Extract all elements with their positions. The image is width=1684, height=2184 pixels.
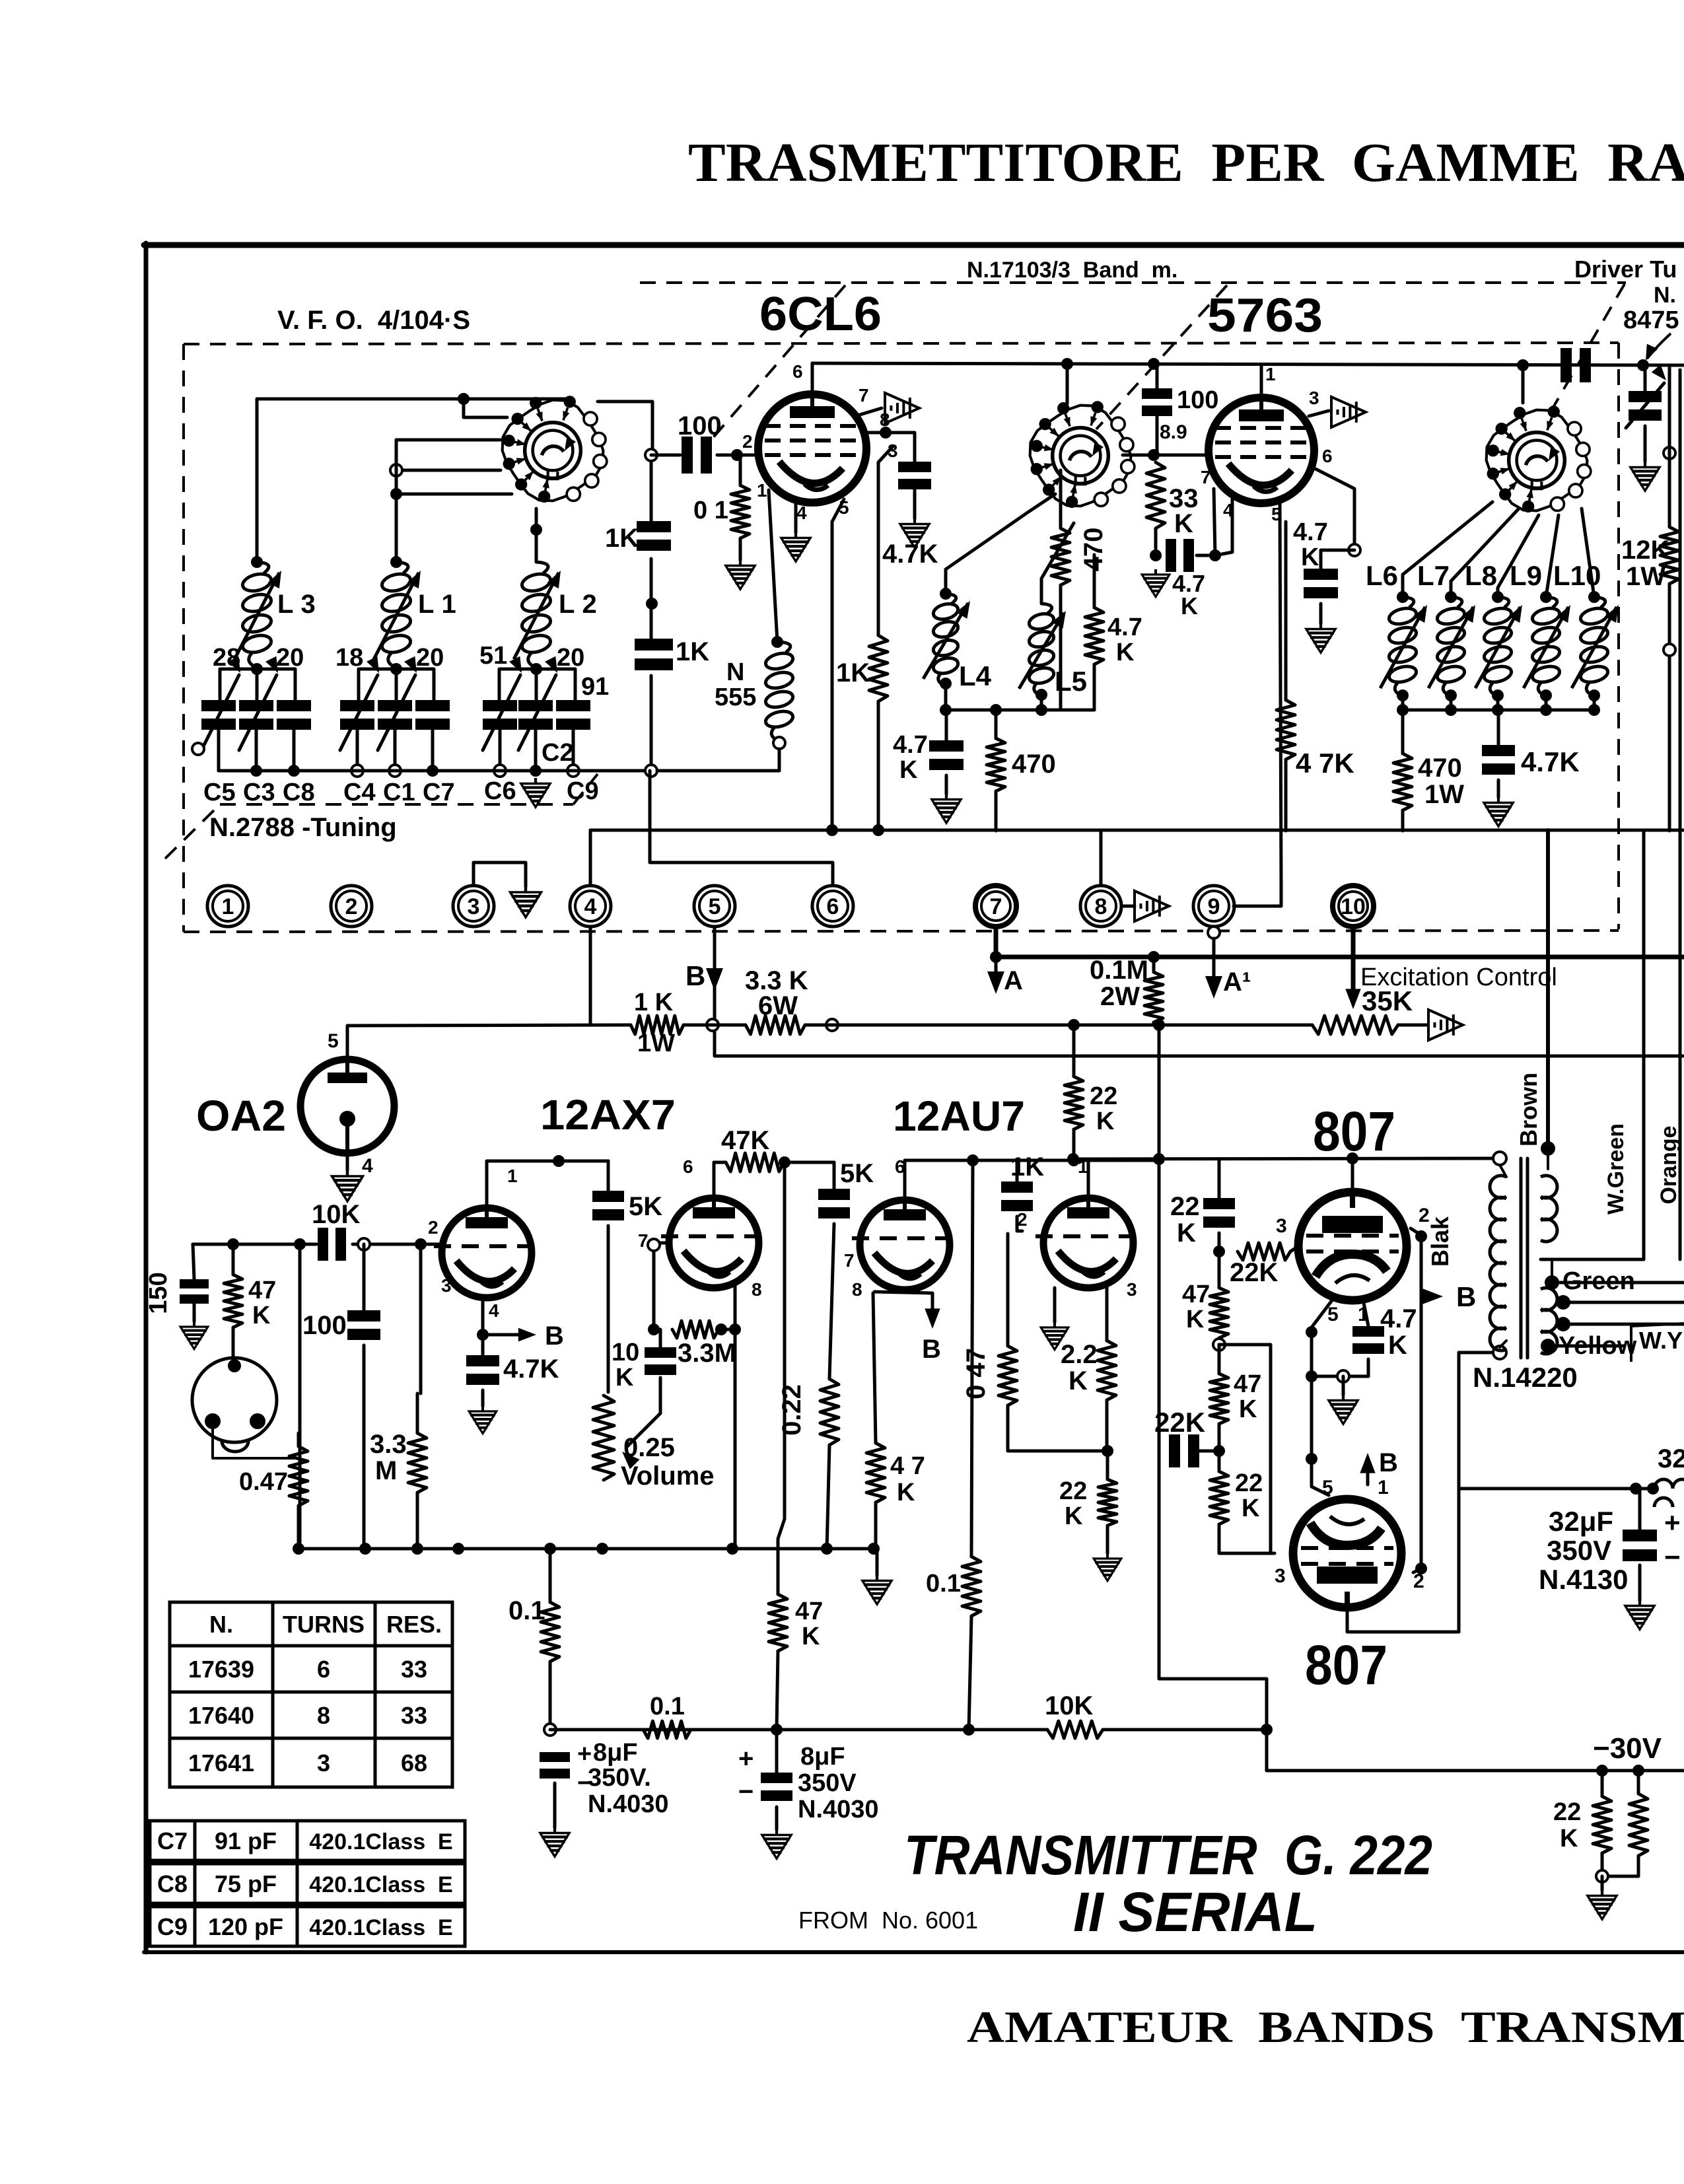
tube V7 807 upper xyxy=(1298,1192,1407,1300)
wire xyxy=(833,1162,836,1189)
transformer core xyxy=(1520,1158,1523,1358)
svg-text:5: 5 xyxy=(328,1030,339,1052)
wire xyxy=(1638,1489,1642,1530)
junction xyxy=(494,765,506,777)
wire yellow xyxy=(1556,1345,1625,1348)
capacitor coupling driver xyxy=(1561,348,1572,382)
junction xyxy=(731,449,743,461)
svg-text:K: K xyxy=(1065,1502,1083,1530)
resistor 47K input xyxy=(224,1275,242,1327)
junction xyxy=(250,765,262,777)
B arrow up 807b xyxy=(1366,1463,1370,1485)
wire C6C2C9 top box xyxy=(499,669,575,700)
wire top bus 12AU7 xyxy=(973,1159,1159,1162)
junction xyxy=(390,488,402,500)
wire xyxy=(1218,1160,1221,1198)
svg-text:8: 8 xyxy=(752,1279,762,1300)
svg-text:6: 6 xyxy=(317,1656,330,1683)
resistor 2.2K xyxy=(1098,1341,1116,1400)
wire xyxy=(995,957,998,972)
capacitor 1K 12AU7 xyxy=(1001,1181,1033,1193)
capacitor 150 input xyxy=(180,1279,209,1288)
junction xyxy=(1153,1019,1165,1031)
wire pin6 to grid cap xyxy=(1316,469,1354,546)
capacitor 4.7K cathode xyxy=(466,1355,499,1366)
capacitor 10K coupling xyxy=(318,1228,328,1261)
wire pin4 down xyxy=(1215,499,1232,555)
wire pin1 riser xyxy=(487,1161,608,1208)
junction xyxy=(389,765,401,777)
junction xyxy=(427,765,439,777)
junction xyxy=(1349,544,1360,556)
junction xyxy=(1347,1152,1358,1164)
terminal 9 xyxy=(1193,886,1234,927)
svg-text:0.47: 0.47 xyxy=(239,1468,288,1496)
wire xyxy=(1040,695,1043,710)
wire xyxy=(1258,1024,1312,1027)
junction xyxy=(1153,1153,1165,1165)
svg-text:32: 32 xyxy=(1658,1444,1684,1473)
resistor 1K plate xyxy=(869,635,888,701)
ground xyxy=(1631,462,1660,491)
svg-text:7: 7 xyxy=(859,385,869,405)
terminal tap2 xyxy=(1556,1317,1570,1331)
junction xyxy=(1337,1370,1349,1382)
terminal 2 xyxy=(331,886,372,927)
svg-text:8μF: 8μF xyxy=(800,1743,845,1771)
svg-text:10: 10 xyxy=(612,1339,639,1366)
svg-text:5: 5 xyxy=(1322,1477,1333,1498)
resistor 22K gnd xyxy=(1098,1479,1117,1526)
junction xyxy=(358,1238,370,1250)
svg-text:3: 3 xyxy=(1275,1565,1286,1587)
wire xyxy=(1668,367,1671,527)
transformer secondary winding xyxy=(1541,1176,1557,1354)
svg-text:L4: L4 xyxy=(959,660,992,691)
svg-text:2: 2 xyxy=(1413,1570,1424,1592)
svg-text:W.Y: W.Y xyxy=(1639,1327,1683,1354)
svg-text:C7: C7 xyxy=(423,779,455,806)
terminal 7 xyxy=(975,886,1016,927)
svg-text:+: + xyxy=(738,1744,754,1773)
svg-text:91 pF: 91 pF xyxy=(215,1827,277,1854)
junction xyxy=(940,678,952,689)
ground xyxy=(1588,1890,1617,1919)
tube V8 807 lower xyxy=(1293,1499,1401,1607)
junction xyxy=(771,636,783,648)
junction xyxy=(1540,704,1552,716)
junction xyxy=(1632,1765,1644,1777)
wire N555 bottom to VFO bus xyxy=(657,749,779,771)
svg-text:1W: 1W xyxy=(1424,780,1464,809)
wire xyxy=(1496,695,1500,710)
tube V5a 12AX7 xyxy=(434,1208,532,1298)
svg-text:0 47: 0 47 xyxy=(962,1348,991,1399)
junction xyxy=(390,663,402,675)
terminal tap1 xyxy=(1556,1295,1570,1310)
junction xyxy=(1492,689,1504,701)
wire L3 to caps xyxy=(256,668,259,700)
svg-text:AMATEUR BANDS TRANSM: AMATEUR BANDS TRANSM xyxy=(967,2002,1684,2052)
ground xyxy=(180,1321,208,1349)
wire tap2 xyxy=(1563,1323,1684,1326)
junction xyxy=(868,1543,880,1555)
wire cathode B xyxy=(483,1298,522,1335)
junction xyxy=(1068,1019,1080,1031)
junction xyxy=(646,598,658,610)
svg-text:K: K xyxy=(1177,1218,1196,1248)
svg-text:K: K xyxy=(899,756,918,784)
junction xyxy=(1647,1483,1659,1495)
ground xyxy=(540,1827,569,1856)
wire xyxy=(1644,365,1647,391)
junction xyxy=(251,556,263,568)
B arrow down 12AU7a xyxy=(874,1292,932,1314)
wire pin7 stub xyxy=(860,408,882,415)
resistor 33K xyxy=(1146,462,1165,528)
junction xyxy=(821,1543,833,1555)
capacitor 1K bypass upper xyxy=(637,521,671,532)
junction xyxy=(452,1543,464,1555)
dashed box right edge xyxy=(1617,343,1620,929)
svg-text:N.4030: N.4030 xyxy=(798,1796,879,1823)
rotary switch S3 driver band xyxy=(1487,405,1591,512)
wire pin8 column xyxy=(734,1329,737,1549)
wire xyxy=(1093,555,1096,608)
wire 47K column xyxy=(298,1244,302,1549)
svg-text:470: 470 xyxy=(1012,750,1056,779)
35K wiper arrow xyxy=(1345,989,1360,1009)
wire grid link xyxy=(1123,454,1209,457)
wire bus A mid xyxy=(996,955,1684,960)
capacitor 4.7K cathode 807 xyxy=(1352,1326,1384,1337)
junction xyxy=(390,556,402,568)
resistor 3.3K 6W xyxy=(746,1016,805,1034)
junction xyxy=(1035,704,1047,716)
wire VFO top bus xyxy=(257,399,569,562)
capacitor 1K bypass lower xyxy=(635,639,673,651)
svg-text:150: 150 xyxy=(145,1272,172,1314)
wire xyxy=(1218,1251,1221,1288)
junction xyxy=(1061,358,1073,370)
wire xyxy=(1008,1405,1107,1451)
capacitor screen bypass xyxy=(898,462,931,472)
wire xyxy=(1284,522,1288,700)
junction xyxy=(1306,1326,1317,1338)
svg-text:2: 2 xyxy=(428,1217,439,1238)
junction xyxy=(415,1238,427,1250)
terminal 5 xyxy=(694,886,735,927)
junction xyxy=(773,737,785,749)
junction xyxy=(1415,1563,1427,1574)
junction xyxy=(288,765,300,777)
svg-text:C4: C4 xyxy=(343,779,376,806)
wire xyxy=(1401,710,1405,754)
inductor L5 xyxy=(1028,604,1055,696)
svg-text:4.7: 4.7 xyxy=(1293,518,1328,546)
resistor 22K bias b xyxy=(1629,1794,1648,1856)
transformer primary terminal bottom xyxy=(1493,1346,1506,1359)
resistor 22K grid xyxy=(1238,1243,1290,1260)
terminal 8 xyxy=(1080,886,1121,927)
svg-text:2: 2 xyxy=(345,894,358,919)
wire pin3 plate down xyxy=(878,446,893,635)
svg-text:N.: N. xyxy=(209,1611,233,1638)
wire L1 column xyxy=(395,440,398,562)
transformer primary terminal top xyxy=(1493,1152,1506,1165)
wire xyxy=(721,1328,735,1331)
wire xyxy=(784,1161,834,1164)
svg-text:6: 6 xyxy=(827,894,839,919)
junction xyxy=(1492,591,1504,603)
svg-text:350V: 350V xyxy=(798,1769,857,1797)
junction xyxy=(1540,689,1552,701)
A1 arrow xyxy=(1212,938,1216,984)
svg-text:2: 2 xyxy=(742,431,753,452)
wire C4C1C7 bottoms xyxy=(356,730,359,771)
svg-text:17641: 17641 xyxy=(188,1749,254,1777)
svg-text:C9: C9 xyxy=(157,1913,188,1940)
svg-text:0 1: 0 1 xyxy=(693,497,728,524)
svg-text:6W: 6W xyxy=(758,991,798,1020)
svg-text:4.7K: 4.7K xyxy=(882,540,938,569)
B arrow right xyxy=(518,1328,536,1342)
dashed callout to 6CL6 band switch xyxy=(710,285,845,441)
svg-text:75 pF: 75 pF xyxy=(215,1870,277,1897)
resistor 0.1M 2W xyxy=(1144,972,1163,1022)
svg-text:4.7: 4.7 xyxy=(1380,1304,1417,1333)
svg-text:L 3: L 3 xyxy=(277,590,316,619)
wire C6C2C9 bottoms xyxy=(499,730,502,771)
svg-text:Brown: Brown xyxy=(1515,1073,1542,1146)
wire terminal10 down xyxy=(1351,927,1356,994)
wire x1755 column xyxy=(1159,1025,1267,1771)
wire screen to plate column xyxy=(1459,1353,1500,1632)
capacitor C1 trimmer xyxy=(378,700,412,711)
wire xyxy=(1450,695,1453,710)
svg-text:1: 1 xyxy=(1378,1477,1389,1498)
svg-text:TURNS: TURNS xyxy=(283,1611,365,1638)
svg-text:+: + xyxy=(1664,1507,1681,1538)
resistor 3.3M horiz xyxy=(672,1321,719,1338)
svg-text:C9: C9 xyxy=(567,777,599,805)
wire xyxy=(827,1445,829,1550)
inductor L8 xyxy=(1483,597,1513,696)
wire xyxy=(1342,1376,1345,1395)
svg-text:22: 22 xyxy=(1235,1469,1263,1497)
wire pin8 to screen cap xyxy=(864,433,915,462)
junction xyxy=(779,1156,790,1168)
wire PA coil bus xyxy=(1403,709,1594,712)
capacitor 100 bypass xyxy=(347,1310,380,1321)
svg-text:100: 100 xyxy=(302,1311,347,1340)
wire pin6 riser xyxy=(714,1162,726,1198)
svg-text:B: B xyxy=(1456,1281,1476,1312)
junction xyxy=(645,449,657,461)
svg-text:35K: 35K xyxy=(1362,985,1413,1016)
wire 12AU7a cathode xyxy=(873,1293,876,1443)
wire xyxy=(1321,550,1354,569)
wire xyxy=(1601,1876,1604,1890)
junction xyxy=(1630,1483,1642,1495)
wire tap1 xyxy=(1563,1301,1684,1304)
wire -30V bus xyxy=(1267,1769,1684,1773)
wire switch fan xyxy=(1403,502,1492,597)
svg-text:22: 22 xyxy=(1553,1798,1581,1826)
junction xyxy=(1209,549,1221,561)
wire C5C3C8 top box xyxy=(220,669,295,700)
junction xyxy=(1213,1246,1225,1257)
wire terminal4 riser xyxy=(589,830,592,886)
junction xyxy=(1415,1230,1427,1242)
wire terminal7 down xyxy=(994,927,999,957)
capacitor 32uF 350V xyxy=(1623,1530,1657,1541)
wire xyxy=(1197,1450,1219,1453)
ground xyxy=(1329,1395,1358,1424)
dashed box bottom edge xyxy=(184,931,1619,932)
keying arrow xyxy=(1331,397,1366,427)
ground xyxy=(1142,569,1170,597)
svg-text:4 7: 4 7 xyxy=(890,1452,925,1480)
svg-text:1K: 1K xyxy=(836,658,870,687)
wire pin1 cathode to N555 xyxy=(769,490,777,642)
wire xyxy=(1103,1728,1267,1732)
wire pin1 riser xyxy=(1260,365,1263,398)
wire C4C1C7 top box xyxy=(359,669,434,700)
wire xyxy=(1545,695,1548,710)
svg-text:−: − xyxy=(1664,1541,1681,1572)
terminal 1 xyxy=(207,886,248,927)
svg-text:N.4030: N.4030 xyxy=(588,1790,669,1818)
svg-text:N.14220: N.14220 xyxy=(1473,1362,1578,1393)
tube V5b 12AX7 xyxy=(661,1198,759,1288)
svg-text:4.7K: 4.7K xyxy=(503,1355,559,1384)
wire terminal6 link xyxy=(650,771,833,886)
junction xyxy=(880,427,892,439)
svg-text:33: 33 xyxy=(401,1702,427,1729)
svg-text:B: B xyxy=(1379,1448,1398,1477)
wire xyxy=(193,1244,194,1279)
svg-text:Orange: Orange xyxy=(1656,1125,1681,1204)
wire plate riser lower xyxy=(1347,1607,1459,1632)
svg-text:470: 470 xyxy=(1418,754,1462,783)
svg-text:K: K xyxy=(1096,1108,1115,1135)
svg-text:12K: 12K xyxy=(1621,536,1669,565)
junction xyxy=(826,1019,838,1031)
svg-text:K: K xyxy=(1239,1395,1257,1423)
svg-text:8: 8 xyxy=(1095,894,1107,919)
wire bus B+ mid xyxy=(590,829,1684,832)
capacitor 22K grid cap xyxy=(1203,1198,1235,1209)
wire xyxy=(877,701,880,831)
svg-text:2: 2 xyxy=(1017,1209,1028,1230)
RF choke 32 xyxy=(1654,1479,1684,1489)
svg-text:C3: C3 xyxy=(243,779,275,806)
svg-text:N: N xyxy=(726,658,744,686)
svg-text:12AU7: 12AU7 xyxy=(893,1092,1025,1140)
wire xyxy=(1363,1300,1368,1326)
junction xyxy=(1596,1870,1608,1882)
wire L2 to caps xyxy=(535,669,538,700)
wire 807 top feed xyxy=(1073,1158,1500,1159)
svg-text:B: B xyxy=(922,1335,941,1364)
wire xyxy=(1218,1451,1221,1471)
capacitor 5K second xyxy=(818,1189,850,1200)
svg-text:K: K xyxy=(1116,639,1135,666)
svg-text:10K: 10K xyxy=(1045,1691,1093,1720)
wire wgreen riser xyxy=(1541,830,1644,1259)
svg-text:22: 22 xyxy=(1090,1082,1117,1110)
wire xyxy=(1290,1246,1298,1251)
wire B feed column xyxy=(971,1160,973,1557)
wire xyxy=(1401,695,1405,710)
capacitor 5K xyxy=(592,1191,624,1202)
ground xyxy=(762,1829,791,1858)
rotary switch S1 VFO band xyxy=(503,396,607,503)
dashed box VFO top edge xyxy=(184,343,1619,344)
wire xyxy=(1601,1771,1604,1796)
junction xyxy=(1637,359,1649,371)
ground xyxy=(932,794,961,823)
junction xyxy=(293,1543,304,1555)
wire xyxy=(1059,470,1063,528)
capacitor trimmer driver xyxy=(1629,391,1662,402)
svg-text:4.7: 4.7 xyxy=(1107,614,1142,641)
svg-text:K: K xyxy=(1181,592,1198,619)
junction xyxy=(553,1155,565,1167)
junction xyxy=(940,588,952,600)
wire C5C3C8 bottoms xyxy=(217,730,221,771)
svg-text:3.3: 3.3 xyxy=(370,1430,407,1459)
wire green xyxy=(1551,1259,1553,1283)
svg-text:3.3M: 3.3M xyxy=(678,1339,736,1368)
resistor 0.1 left xyxy=(541,1602,559,1662)
wire xyxy=(607,1161,610,1191)
svg-text:0.1M: 0.1M xyxy=(1090,956,1148,985)
svg-text:22K: 22K xyxy=(1154,1407,1205,1438)
svg-text:C6: C6 xyxy=(484,777,516,805)
junction xyxy=(1148,449,1160,461)
svg-text:8475: 8475 xyxy=(1623,306,1679,334)
rotary switch S2 5763 band xyxy=(1030,401,1135,508)
wire xyxy=(232,1244,235,1275)
ground xyxy=(1041,1322,1069,1350)
svg-text:B: B xyxy=(685,960,705,991)
junction xyxy=(530,524,542,536)
junction xyxy=(1588,704,1600,716)
svg-text:8.9: 8.9 xyxy=(1160,421,1187,443)
svg-text:8: 8 xyxy=(852,1279,862,1300)
ground xyxy=(1625,1600,1654,1629)
svg-text:51: 51 xyxy=(479,642,507,670)
wire brown xyxy=(1547,1148,1549,1169)
svg-text:−: − xyxy=(738,1777,754,1806)
wire terminal3 ground xyxy=(474,863,526,886)
resistor 22K c xyxy=(1210,1471,1228,1524)
junction xyxy=(251,663,263,675)
junction xyxy=(940,704,952,716)
junction xyxy=(1397,689,1409,701)
junction xyxy=(1588,591,1600,603)
svg-text:L 2: L 2 xyxy=(559,590,597,619)
svg-text:K: K xyxy=(1560,1825,1578,1852)
svg-text:5K: 5K xyxy=(629,1192,662,1221)
terminal 6 xyxy=(812,886,853,927)
inductor L4 xyxy=(932,594,960,686)
wire pin3 stub xyxy=(1309,411,1329,416)
svg-text:555: 555 xyxy=(715,684,756,711)
resistor 47K a xyxy=(1210,1288,1228,1338)
